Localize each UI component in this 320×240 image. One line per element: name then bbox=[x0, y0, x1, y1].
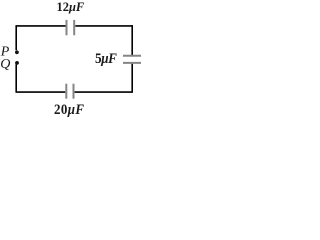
svg-text:5μF: 5μF bbox=[95, 50, 117, 67]
svg-text:Q: Q bbox=[0, 57, 10, 72]
wire top left segment bbox=[16, 25, 66, 27]
capacitor C2 5uF (right, horizontal plates) bbox=[123, 56, 141, 63]
node Q terminal dot bbox=[15, 61, 19, 65]
wire bottom right segment bbox=[75, 91, 133, 93]
wire left lower (from node Q) bbox=[15, 64, 17, 92]
capacitor C1 12uF (top, vertical plates) bbox=[67, 20, 75, 35]
capacitor C3 20uF (bottom, vertical plates) bbox=[66, 84, 73, 99]
svg-text:20μF: 20μF bbox=[54, 101, 85, 117]
wire right lower bbox=[131, 64, 133, 93]
wire top right segment bbox=[75, 25, 133, 27]
wire left upper (to node P) bbox=[15, 25, 17, 50]
svg-text:12μF: 12μF bbox=[57, 0, 85, 14]
wire right upper bbox=[131, 25, 133, 55]
wire bottom left segment bbox=[16, 91, 66, 93]
node P terminal dot bbox=[15, 50, 19, 54]
